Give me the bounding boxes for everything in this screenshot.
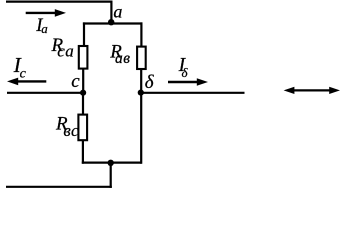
node c junction dot [80, 90, 86, 96]
svg-text:δ: δ [182, 65, 189, 80]
svg-text:δ: δ [145, 72, 155, 93]
svg-text:а: а [41, 21, 48, 36]
arrow Ic current arrow pointing left [7, 78, 46, 86]
wire top phase-a horizontal [6, 1, 112, 3]
wire phase-c horizontal left [7, 92, 83, 94]
wire phase-b horizontal right [141, 92, 245, 94]
resistor Rab [137, 47, 146, 69]
label Rca [51, 35, 75, 61]
wire Rab bottom through node b down [140, 69, 142, 164]
label Rab [109, 42, 130, 68]
resistor Rca [79, 46, 88, 69]
svg-text:с: с [20, 66, 27, 81]
label Ic [13, 53, 27, 81]
resistor Rbc [78, 115, 87, 141]
wire node-a horizontal bar [83, 22, 142, 24]
svg-text:вс: вс [63, 121, 79, 140]
wire top corner vertical down to node a [110, 1, 112, 24]
svg-text:са: са [57, 41, 75, 60]
bottom junction dot [108, 160, 114, 166]
wire node c down to Rbc [82, 93, 84, 115]
label Rbc [55, 114, 79, 140]
wire stub junction down to bottom wire [110, 163, 112, 188]
node b junction dot [138, 90, 144, 96]
wire Rbc bottom down [82, 140, 84, 164]
svg-text:ав: ав [115, 50, 130, 67]
svg-text:с: с [71, 71, 80, 92]
label Ib [178, 55, 189, 80]
arrow double-headed horizontal [284, 87, 340, 94]
arrow Ib current arrow [168, 78, 208, 86]
wire bottom horizontal [6, 186, 112, 188]
arrow Ia current arrow [26, 9, 66, 17]
svg-text:а: а [113, 2, 122, 22]
wire bottom-mid horizontal [82, 162, 142, 164]
wire Rca bottom to node c [82, 69, 84, 93]
wire left branch vertical a to Rca [83, 22, 85, 46]
node a junction dot [108, 19, 114, 25]
wire right branch vertical a to Rab [140, 22, 142, 46]
label Ia [35, 16, 48, 36]
